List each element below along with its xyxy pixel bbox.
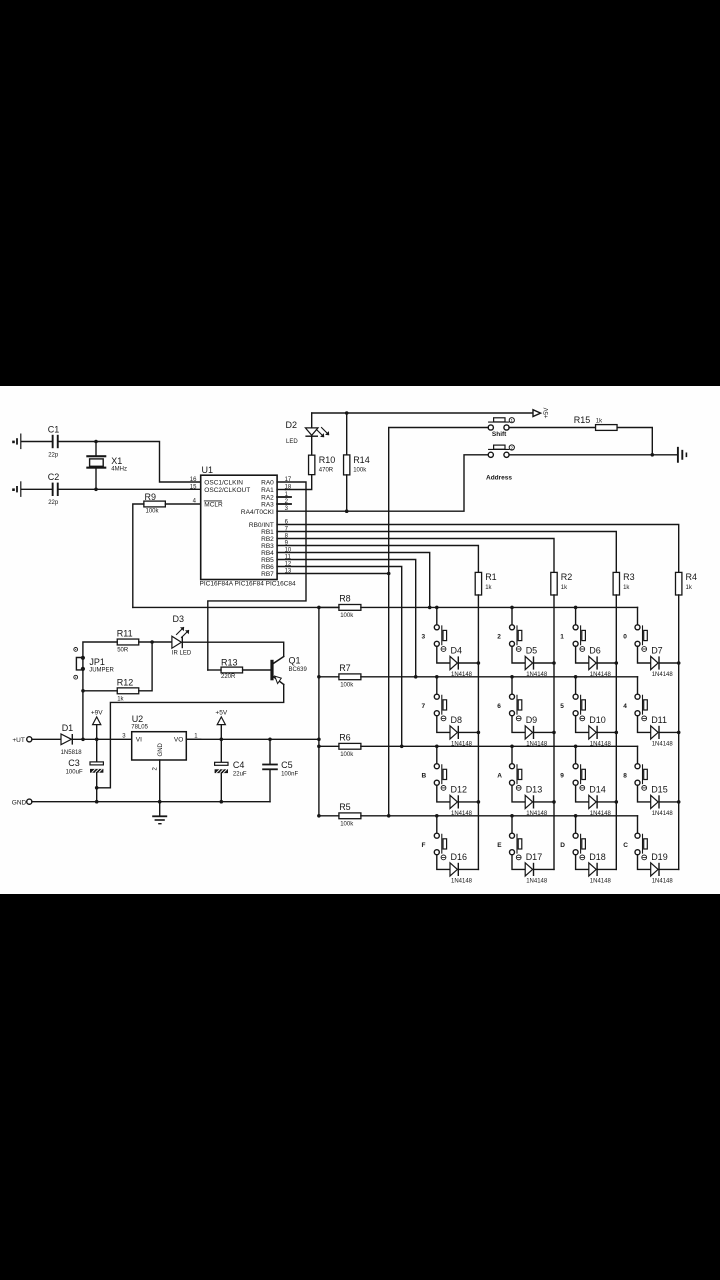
diode D6 1N4148 [589,656,596,669]
wire key C to diode D19 [638,855,651,870]
diode D15 1N4148 [651,795,658,808]
svg-text:1: 1 [560,634,564,641]
node column 4 row 3 [677,800,681,804]
svg-text:R10: R10 [319,455,336,465]
wire Shift to RB7 [389,428,489,574]
wire R9 to MCLR [165,503,200,505]
wire key 3 to diode D4 [437,646,450,663]
svg-text:C4: C4 [233,760,245,770]
key switch 0 [637,607,639,624]
wire R7 row line [361,676,638,678]
node column 4 row 1 [677,661,681,665]
node row junction [510,606,514,610]
svg-text:1N4148: 1N4148 [590,811,612,817]
resistor R13 [221,667,243,673]
svg-text:D9: D9 [526,715,538,725]
wire R8 row line [361,606,638,608]
svg-text:F: F [422,842,426,849]
svg-text:C2: C2 [48,472,60,482]
pushbutton Shift [488,425,493,430]
svg-text:C: C [623,842,628,849]
wire key 7 to diode D8 [437,716,450,733]
svg-text:D17: D17 [526,852,543,862]
node U2 ground [158,800,162,804]
svg-text:R12: R12 [117,677,134,687]
svg-text:1k: 1k [686,585,693,591]
svg-text:OSC1/CLKIN: OSC1/CLKIN [204,480,243,487]
svg-text:RB3: RB3 [261,543,274,550]
pin RA2 stub [277,496,291,498]
svg-text:220R: 220R [221,674,236,680]
node row junction [510,675,514,679]
node column 1 row 3 [477,800,481,804]
diode D9 1N4148 [525,726,532,739]
svg-text:RA0: RA0 [261,480,274,487]
wire R7 left [319,676,339,678]
svg-text:D1: D1 [62,723,74,733]
wire R2 to column 2 [553,595,555,869]
wire R9 to +5V net [133,504,144,607]
node R12 junction [81,689,85,693]
wire R13 to Q1 base [243,669,271,671]
svg-text:RB6: RB6 [261,564,274,571]
node R11-D3 [150,640,154,644]
svg-text:C1: C1 [48,425,60,435]
svg-text:R2: R2 [561,572,573,582]
capacitor C1 [52,435,54,448]
wire D3 to Q1 collector [183,642,284,656]
svg-text:+5V: +5V [544,408,550,419]
diode D13 1N4148 [525,795,532,808]
diode D17 1N4148 [525,863,532,876]
wire R5 left [319,815,339,817]
node emitter return [95,786,99,790]
svg-text:1N4148: 1N4148 [451,672,473,678]
diode D5 1N4148 [525,656,532,669]
resistor R3 [613,572,619,595]
svg-text:16: 16 [190,477,197,483]
LED D2 [311,413,313,428]
svg-text:LED: LED [286,439,298,445]
node column 2 row 2 [552,731,556,735]
svg-text:1N4148: 1N4148 [652,811,674,817]
node C3 +9V [95,738,99,742]
svg-text:6: 6 [497,703,501,710]
IR LED D3 emission arrows [177,627,190,637]
node row junction [435,606,439,610]
wire +5V common vertical [318,607,320,815]
svg-text:+9V: +9V [91,710,103,717]
wire C1 left [21,441,51,443]
svg-text:1N4148: 1N4148 [590,742,612,748]
svg-text:E: E [497,842,502,849]
svg-text:RB7: RB7 [261,571,274,578]
svg-text:X1: X1 [111,456,122,466]
svg-text:D2: D2 [286,420,298,430]
node row junction [435,814,439,818]
svg-text:4MHz: 4MHz [111,467,127,473]
terminal GND [27,799,32,804]
svg-text:D8: D8 [451,715,463,725]
wire C2 to OSC2/CLKOUT [59,488,201,490]
svg-text:R8: R8 [339,593,351,603]
node column 1 row 1 [477,661,481,665]
capacitor C2 [52,483,54,496]
IC U2 78L05 [132,732,187,760]
svg-text:100k: 100k [340,752,354,758]
svg-text:D5: D5 [526,646,538,656]
wire R11 to D3 [139,641,172,643]
wire key 8 to diode D15 [638,785,651,802]
svg-text:JUMPER: JUMPER [89,668,114,674]
node row junction [574,814,578,818]
svg-text:1N4148: 1N4148 [526,672,548,678]
svg-text:RB0/INT: RB0/INT [249,522,274,529]
wire R11 left to jumper [83,642,117,739]
key switch E [511,816,513,833]
key switch A [511,746,513,763]
key switch 1 [575,607,577,624]
resistor R7 [339,674,361,680]
node crystal top [94,440,98,444]
wire key D to diode D18 [576,855,589,870]
svg-text:D10: D10 [589,715,606,725]
svg-text:1N5818: 1N5818 [61,750,83,756]
node R15 ground junction [651,453,655,457]
svg-text:JP1: JP1 [89,657,105,667]
key switch C [637,816,639,833]
wire key 5 to diode D10 [576,716,589,733]
svg-text:0: 0 [623,634,627,641]
diode D19 1N4148 [651,863,658,876]
svg-text:100k: 100k [340,682,354,688]
jumper JP1 pin marker 2 [74,675,78,679]
wire RA4 to Address switch [277,455,488,511]
node column 3 row 1 [615,661,619,665]
node row junction [510,814,514,818]
diode D18 1N4148 [589,863,596,876]
svg-text:RB4: RB4 [261,550,274,557]
resistor R12 [117,688,139,694]
svg-text:100k: 100k [340,821,354,827]
svg-text:D4: D4 [451,646,463,656]
svg-text:1N4148: 1N4148 [526,742,548,748]
svg-text:U1: U1 [202,465,214,475]
svg-text:22uF: 22uF [233,772,247,778]
node row junction [510,745,514,749]
svg-text:1N4148: 1N4148 [451,742,473,748]
svg-text:D16: D16 [451,852,468,862]
wire R3 to column 3 [615,595,617,869]
svg-text:RB1: RB1 [261,529,274,536]
svg-text:8: 8 [623,773,627,780]
node C4 +5V [220,738,224,742]
node row junction [435,675,439,679]
node row junction [574,606,578,610]
wire C5 to GND [269,770,271,802]
jumper JP1 pin marker 1 [74,648,78,652]
key switch D [575,816,577,833]
svg-text:D6: D6 [589,646,601,656]
svg-text:7: 7 [422,703,426,710]
wire U2 GND pin [159,760,161,802]
svg-text:2: 2 [511,445,514,450]
svg-text:100uF: 100uF [66,770,83,776]
wire key A to diode D13 [512,785,525,802]
wire key 1 to diode D6 [576,646,589,663]
white drawing area [0,386,720,894]
node RB7-Shift [387,572,391,576]
resistor R14 [346,413,348,455]
svg-text:3: 3 [422,634,426,641]
wire R15 to ground [618,428,653,455]
node row junction [574,745,578,749]
ground symbol U2 [159,802,161,816]
svg-text:D19: D19 [651,852,668,862]
svg-text:470R: 470R [319,468,334,474]
IC U1 PIC16F84A [201,475,277,579]
svg-text:VI: VI [136,737,142,744]
svg-text:+UT: +UT [12,737,24,744]
wire R1 to column 1 [477,595,479,869]
svg-text:D11: D11 [651,715,667,725]
node RB4 row1 [428,606,432,610]
svg-text:RB5: RB5 [261,557,274,564]
svg-text:U2: U2 [132,714,144,724]
svg-text:1N4148: 1N4148 [526,811,548,817]
wire R5 row line [361,815,638,817]
svg-text:1N4148: 1N4148 [451,811,473,817]
node column 3 row 2 [615,731,619,735]
key switch 3 [436,607,438,624]
wire R8 left [319,606,339,608]
key switch 6 [511,677,513,694]
resistor R11 [117,639,139,645]
pin RA3 stub [277,503,291,505]
node row junction [574,675,578,679]
wire RB2 to R2 [277,539,554,573]
svg-text:4: 4 [623,703,627,710]
node C5 +5V [268,738,272,742]
capacitor C5 100nF [269,739,271,763]
svg-text:D18: D18 [589,852,606,862]
svg-text:+5V: +5V [215,710,227,717]
svg-text:R9: R9 [145,492,157,502]
svg-text:R1: R1 [485,572,497,582]
resistor R9 [144,501,166,507]
svg-text:IR LED: IR LED [172,651,192,657]
node column 2 row 3 [552,800,556,804]
svg-text:D3: D3 [173,614,185,624]
node column 1 row 2 [477,731,481,735]
wire key B to diode D12 [437,785,450,802]
svg-text:RA4/T0CKI: RA4/T0CKI [241,509,274,516]
wire RA0 to R13 [208,482,306,670]
+5V rail wire [312,412,533,414]
terminal pad (bottom input) [12,488,15,491]
svg-text:VO: VO [174,737,183,744]
key switch 4 [637,677,639,694]
svg-text:100k: 100k [340,613,354,619]
wire key E to diode D17 [512,855,525,870]
wire Q1 emitter to ground [97,685,284,788]
svg-text:1N4148: 1N4148 [590,672,612,678]
svg-text:PIC16F84A PIC16F84 PIC16C84: PIC16F84A PIC16F84 PIC16C84 [200,580,296,587]
svg-text:R6: R6 [339,732,351,742]
svg-text:A: A [497,773,502,780]
key switch 9 [575,746,577,763]
svg-text:15: 15 [190,484,197,490]
svg-text:BC639: BC639 [289,667,308,673]
diode D8 1N4148 [450,726,457,739]
resistor R6 [339,743,361,749]
svg-text:100k: 100k [146,509,160,515]
svg-text:RA2: RA2 [261,495,274,502]
wire RB1 to R3 [277,532,616,573]
wire RB5 to row 2 [277,560,416,677]
capacitor C4 22uF [220,739,222,762]
svg-text:R7: R7 [339,663,351,673]
diode D14 1N4148 [589,795,596,808]
+9V arrow symbol [96,725,98,740]
wire key 2 to diode D5 [512,646,525,663]
key switch 7 [436,677,438,694]
+5V arrow symbol C4 [220,725,222,740]
svg-text:RB2: RB2 [261,536,274,543]
resistor R5 [339,813,361,819]
key switch F [436,816,438,833]
diode D12 1N4148 [450,795,457,808]
ground symbol right [677,448,679,462]
svg-text:1N4148: 1N4148 [652,742,674,748]
wire R9 net to R8 [133,606,339,608]
wire key 0 to diode D7 [638,646,651,663]
node RB6 row3 [400,745,404,749]
wire C3 to GND [96,773,98,802]
diode D7 1N4148 [651,656,658,669]
svg-text:D: D [560,842,565,849]
resistor R10 [309,455,315,475]
wire U2 VO to +5V net [186,738,319,740]
wire key 6 to diode D9 [512,716,525,733]
transistor Q1 BC639 [270,660,273,681]
svg-text:1: 1 [511,418,514,423]
resistor R2 [551,572,557,595]
IR LED D3 [172,636,182,648]
key switch B [436,746,438,763]
jumper JP1 pads [81,656,85,660]
resistor R15 [596,425,618,431]
key switch 5 [575,677,577,694]
svg-text:1k: 1k [596,418,603,424]
terminal +UT [27,737,32,742]
resistor R4 [676,572,682,595]
diode D16 1N4148 [450,863,457,876]
capacitor C3 100uF [96,739,98,762]
wire R12 to R11 node [139,642,152,691]
wire key F to diode D16 [437,855,450,870]
svg-text:22p: 22p [48,500,59,506]
svg-text:C5: C5 [281,760,293,770]
svg-text:R15: R15 [574,415,591,425]
svg-text:Shift: Shift [492,431,507,438]
wire key 4 to diode D11 [638,716,651,733]
resistor R8 [339,605,361,611]
wire C2 left [21,488,51,490]
svg-text:5: 5 [560,703,564,710]
svg-text:1N4148: 1N4148 [526,879,548,885]
svg-text:B: B [422,773,427,780]
svg-text:GND: GND [158,742,164,756]
svg-text:GND: GND [12,799,27,806]
resistor R1 [475,572,481,595]
wire RB7 to Shift and row 4 [277,573,389,575]
svg-text:R11: R11 [117,629,133,639]
node column 3 row 3 [615,800,619,804]
jumper JP1 bracket [76,658,81,670]
wire RB4 to row 1 [277,553,430,608]
svg-text:D14: D14 [589,785,606,795]
LED D2 emission arrows [317,428,330,438]
node +5V feed [317,738,321,742]
wire Address to ground [509,454,676,456]
svg-text:Address: Address [486,475,512,482]
node C4 ground [220,800,224,804]
node column 2 row 1 [552,661,556,665]
wire +UT to D1 [32,738,61,740]
node C3 ground [95,800,99,804]
svg-text:1N4148: 1N4148 [590,879,612,885]
diode D4 1N4148 [450,656,457,669]
diode D11 1N4148 [651,726,658,739]
svg-text:R3: R3 [623,572,635,582]
svg-text:OSC2/CLKOUT: OSC2/CLKOUT [204,487,250,494]
wire R6 row line [361,745,638,747]
node column 4 row 2 [677,731,681,735]
node RB5 row2 [414,675,418,679]
wire R10 to RA1 [285,475,311,490]
wire D1 to U2 VI [73,738,201,740]
wire C1 to OSC1/CLKIN [59,442,201,483]
node RB7 row4 [387,814,391,818]
GND rail wire [32,801,270,803]
wire key 9 to diode D14 [576,785,589,802]
svg-text:1k: 1k [561,585,568,591]
svg-text:D12: D12 [451,785,468,795]
diode D10 1N4148 [589,726,596,739]
pushbutton Address [488,452,493,457]
wire RB6 to row 3 [277,567,402,747]
node RA4-R14 [345,509,349,513]
wire R14 to RA4 [346,475,348,511]
svg-text:2: 2 [497,634,501,641]
svg-text:R13: R13 [221,657,238,667]
key switch 2 [511,607,513,624]
svg-text:78L05: 78L05 [131,725,148,731]
wire C4 to GND [220,773,222,802]
node +5V rail R14 [345,411,349,415]
svg-text:9: 9 [560,773,564,780]
svg-text:D13: D13 [526,785,543,795]
svg-text:1N4148: 1N4148 [451,879,473,885]
svg-text:RA1: RA1 [261,487,274,494]
wire Shift to R15 [509,427,595,429]
svg-text:C3: C3 [68,758,80,768]
terminal pad (top input) [12,441,15,444]
key switch 8 [637,746,639,763]
crystal X1 [95,442,97,456]
wire R6 left [319,745,339,747]
